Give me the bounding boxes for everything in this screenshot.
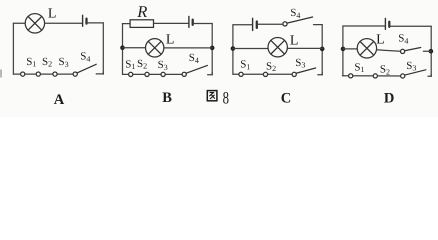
- switch S2 right contact (circuit D): [401, 74, 405, 78]
- scan artifact at left margin: [0, 70, 2, 78]
- lamp L (circuit A): [25, 14, 44, 33]
- wire: circuit D lamp to switch S4: [377, 50, 401, 52]
- wire: circuit D top to battery: [343, 25, 385, 27]
- node: junction dot right (circuit D): [429, 49, 434, 54]
- svg-text:S1: S1: [26, 56, 36, 69]
- svg-text:S2: S2: [266, 60, 276, 73]
- svg-text:S1: S1: [240, 59, 250, 72]
- switch S3 blade open (circuit D): [404, 70, 426, 76]
- wire: circuit C middle branch left: [233, 48, 268, 50]
- wire: circuit A battery to top-right corner: [87, 22, 103, 24]
- svg-text:S4: S4: [290, 7, 300, 20]
- wire: circuit B left side: [122, 24, 124, 75]
- wire: circuit C bottom-right stub: [318, 73, 322, 75]
- wire: circuit A bottom with switch chain: [13, 73, 75, 75]
- battery cell (circuit A): [83, 15, 87, 26]
- svg-text:S3: S3: [158, 59, 168, 72]
- node: junction dot left (circuit C): [231, 46, 236, 51]
- wire: circuit B middle branch right: [164, 47, 212, 49]
- lamp L (circuit D): [357, 39, 376, 58]
- svg-text:R: R: [136, 2, 147, 21]
- wire: circuit D bottom with switch chain: [342, 75, 402, 77]
- wire: circuit B bottom-right stub: [208, 73, 213, 75]
- switch S3 contacts (circuit B): [161, 72, 186, 76]
- wire: circuit A bottom-right stub: [96, 72, 103, 74]
- switch S4 blade open (circuit D): [405, 48, 421, 51]
- wire: circuit C bottom with switch chain: [233, 73, 294, 75]
- svg-text:L: L: [48, 7, 57, 22]
- caption: Chinese character 图 (figure) drawn as strokes: [207, 91, 217, 101]
- svg-text:S2: S2: [380, 64, 390, 77]
- switch S4 blade open (circuit A): [76, 64, 96, 73]
- wire: circuit C top-right stub: [314, 24, 323, 26]
- wire: circuit A top-left to lamp: [13, 22, 25, 24]
- switch S3 contacts (circuit A): [53, 72, 77, 76]
- wire: circuit B resistor to battery: [154, 22, 189, 24]
- wire: circuit C top-left to battery: [233, 24, 252, 26]
- svg-text:S3: S3: [406, 60, 416, 73]
- svg-text:L: L: [290, 33, 299, 48]
- wire: circuit C left side: [232, 25, 234, 74]
- battery cell (circuit D): [385, 18, 389, 29]
- switch S2 right contact (circuit C): [292, 72, 296, 76]
- svg-text:B: B: [162, 90, 172, 106]
- wire: circuit B middle branch left: [123, 47, 146, 49]
- wire: circuit D branch right stub: [423, 50, 431, 52]
- wire: circuit B top-left to resistor: [123, 23, 131, 25]
- svg-text:S4: S4: [80, 51, 90, 64]
- switch S3 blade open (circuit C): [295, 68, 315, 74]
- node: junction dot right (circuit C): [320, 47, 325, 52]
- svg-text:C: C: [281, 90, 291, 106]
- lamp L (circuit B): [146, 39, 164, 57]
- switch S1 contacts (circuit D): [349, 74, 378, 78]
- switch S1 contacts (circuit C): [239, 72, 268, 76]
- node: junction dot left (circuit B): [120, 45, 125, 50]
- wire: circuit D middle branch left: [343, 48, 357, 50]
- wire: circuit C right side: [321, 25, 323, 75]
- switch S4 contact (circuit D): [401, 49, 405, 53]
- lamp L (circuit C): [268, 38, 287, 57]
- wire: circuit B battery to top-right corner: [193, 23, 212, 25]
- svg-text:S3: S3: [295, 57, 305, 70]
- wire: circuit C middle branch right: [287, 47, 322, 49]
- resistor R (circuit B): [130, 20, 153, 28]
- wire: circuit A lamp to battery: [45, 22, 83, 24]
- svg-text:A: A: [54, 92, 65, 108]
- wire: circuit D battery to top-right corner: [390, 25, 431, 27]
- svg-text:S4: S4: [189, 52, 199, 65]
- wire: circuit B bottom with switch chain: [123, 73, 185, 75]
- svg-text:D: D: [384, 91, 394, 107]
- battery cell (circuit B): [189, 16, 193, 27]
- svg-text:8: 8: [223, 87, 230, 107]
- wire: circuit D bottom-right stub: [428, 74, 431, 76]
- wire: circuit C battery to switch S4: [258, 23, 283, 25]
- wire: circuit D right side: [430, 26, 432, 76]
- switch S1 contacts (circuit A): [21, 72, 41, 76]
- caption: figure number 8: [223, 87, 230, 107]
- svg-text:S3: S3: [59, 56, 69, 69]
- svg-text:S4: S4: [398, 33, 408, 46]
- wire: circuit A left side: [12, 23, 14, 74]
- switch S4 blade open (circuit C): [287, 17, 313, 23]
- svg-text:L: L: [376, 33, 385, 48]
- node: junction dot right (circuit B): [210, 46, 215, 51]
- svg-text:S2: S2: [42, 56, 52, 69]
- svg-text:S2: S2: [137, 58, 147, 71]
- switch S4 contact (circuit C): [283, 22, 287, 26]
- wire: circuit D left side: [342, 26, 344, 76]
- svg-text:S1: S1: [125, 58, 135, 71]
- switch S1 contacts (circuit B): [129, 72, 150, 76]
- switch S4 blade open (circuit B): [185, 65, 207, 73]
- wire: circuit B right side: [211, 24, 213, 75]
- svg-text:L: L: [166, 33, 175, 48]
- wire: circuit A right side: [102, 23, 104, 74]
- node: junction dot left (circuit D): [341, 47, 346, 52]
- battery cell (circuit C): [253, 18, 257, 30]
- svg-text:S1: S1: [354, 61, 364, 74]
